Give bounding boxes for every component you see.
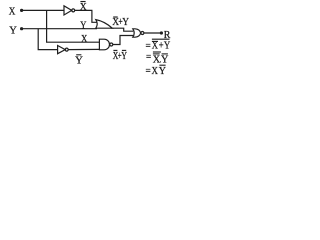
svg-text:Y: Y bbox=[164, 41, 170, 52]
label Xbar+Y on OR1 output bbox=[112, 16, 129, 28]
svg-text:Y: Y bbox=[75, 55, 83, 66]
svg-text:Y: Y bbox=[159, 66, 166, 77]
svg-text:Y: Y bbox=[161, 55, 168, 66]
wire Y horizontal to OR gate G1 bbox=[22, 28, 97, 30]
svg-text:=: = bbox=[146, 52, 152, 63]
svg-text:Y: Y bbox=[121, 51, 127, 62]
label Xbar on U1 output bbox=[80, 2, 88, 13]
svg-text:X: X bbox=[80, 2, 88, 13]
node Y input terminal bbox=[20, 27, 23, 30]
svg-text:Y: Y bbox=[9, 24, 17, 36]
svg-text:X: X bbox=[152, 41, 159, 52]
svg-text:Y: Y bbox=[80, 21, 86, 32]
svg-text:Y: Y bbox=[122, 16, 129, 28]
node R terminal bbox=[160, 31, 163, 34]
equation line 3: = X bar Y bbox=[146, 65, 167, 77]
wire U1 output bbox=[75, 9, 93, 11]
wire OR1 output to NOR G3 top input bbox=[111, 28, 133, 31]
wire elbow Xbar into OR1 top input bbox=[92, 10, 97, 22]
inverter U2 (NOT Y) bbox=[58, 46, 69, 54]
svg-text:=: = bbox=[146, 66, 152, 77]
label Ybar on U2 output bbox=[75, 55, 83, 67]
wire X branch down to NAND G2 top input bbox=[47, 10, 100, 42]
node X input terminal bbox=[20, 9, 23, 12]
wire NAND output elbow up to NOR G3 bottom input bbox=[113, 36, 133, 45]
wire X horizontal to inverter U1 bbox=[22, 9, 64, 11]
wire NOR output to node R bbox=[144, 32, 160, 34]
NOR gate G3 bbox=[133, 29, 144, 37]
svg-text:X: X bbox=[152, 66, 159, 77]
equation line 2: = doublebar X . bar Y bbox=[146, 52, 168, 66]
equation line 1: R = overline(Xbar + Y) bbox=[146, 39, 171, 52]
NAND gate G2 bbox=[99, 39, 112, 50]
OR gate G1 bbox=[96, 20, 113, 29]
svg-text:X: X bbox=[9, 6, 16, 18]
svg-text:=: = bbox=[146, 41, 152, 52]
wire U2 output to NAND G2 bottom input bbox=[68, 48, 100, 50]
svg-text:X: X bbox=[81, 34, 88, 45]
inverter U1 (NOT X) bbox=[64, 6, 75, 15]
wire Y branch down to inverter U2 bbox=[38, 29, 57, 50]
label Xbar+Ybar on NAND output bbox=[113, 50, 127, 62]
